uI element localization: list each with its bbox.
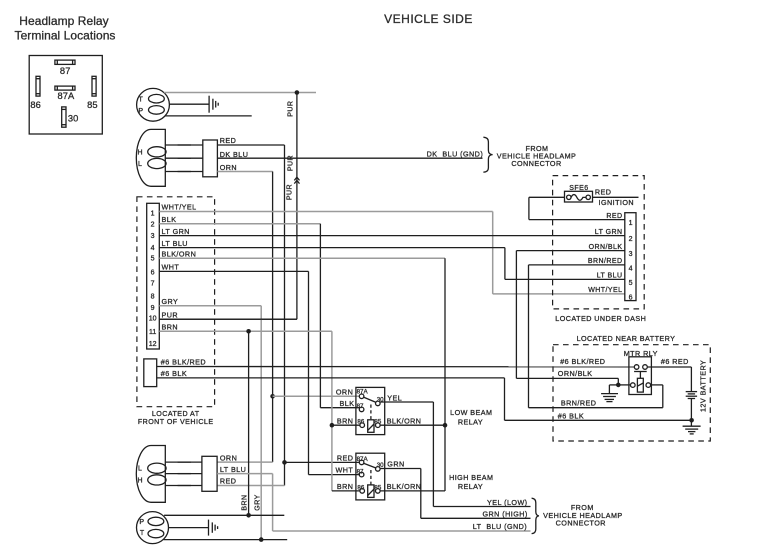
terminal 87A blade	[55, 86, 75, 101]
wire fuse to dash pin1	[529, 197, 625, 219]
svg-text:CONNECTOR: CONNECTOR	[556, 519, 606, 528]
svg-text:LOCATED UNDER DASH: LOCATED UNDER DASH	[555, 314, 646, 323]
svg-text:LT BLU: LT BLU	[162, 239, 188, 248]
low relay pin circles	[359, 394, 380, 428]
svg-text:GRY: GRY	[254, 494, 261, 510]
wire P top lamp stub	[165, 115, 252, 117]
node BRN split junction	[246, 329, 251, 334]
node ORN junction at low 87A	[270, 394, 275, 399]
ground top lamp	[209, 96, 218, 113]
MTR RLY plunger	[634, 372, 647, 379]
wire BLK pin2 horizontal (gray)	[159, 223, 320, 225]
svg-text:87: 87	[60, 66, 71, 76]
svg-text:BRN/RED: BRN/RED	[588, 258, 623, 265]
svg-text:RED: RED	[606, 213, 622, 220]
terminal 86 blade	[30, 76, 41, 110]
wire bottom headlamp pigtail 1	[165, 461, 202, 463]
label BRN vertical	[242, 494, 249, 510]
wire WHT pin6 to high 87	[159, 271, 359, 474]
wire T top lamp (gray)	[164, 92, 316, 94]
svg-text:8: 8	[151, 294, 155, 301]
svg-text:LT BLU: LT BLU	[220, 465, 246, 474]
svg-text:ORN/BLK: ORN/BLK	[558, 369, 593, 378]
wire GRN from high 30	[380, 469, 531, 519]
svg-text:87: 87	[357, 468, 364, 475]
svg-text:BRN: BRN	[337, 416, 354, 425]
wire LT BLU pin4 to dash pin5	[159, 248, 625, 280]
svg-text:PUR: PUR	[287, 184, 294, 200]
svg-text:BLK/ORN: BLK/ORN	[162, 250, 197, 259]
connector top headlamp	[203, 140, 218, 177]
svg-text:LT GRN: LT GRN	[162, 227, 190, 236]
node BRN junction low 86	[330, 423, 335, 428]
brace bottom vehicle connector	[532, 498, 539, 533]
svg-text:BLK/ORN: BLK/ORN	[387, 482, 422, 491]
relay low beam box	[356, 387, 385, 434]
wire DK BLU to vehicle connector	[217, 157, 482, 159]
svg-text:PUR: PUR	[288, 155, 295, 171]
svg-text:LOW BEAM: LOW BEAM	[450, 408, 492, 417]
wire ORN top horizontal (gray)	[217, 171, 272, 173]
wire ORN/BLK dash pin3	[516, 251, 624, 385]
wire #6 BLK/RED to MTR RLY	[157, 366, 635, 368]
wire PUR pin10 stub	[159, 318, 297, 320]
headlamp relay pinout box	[29, 56, 102, 135]
svg-text:LT BLU (GND): LT BLU (GND)	[473, 522, 527, 531]
wire RED vertical	[284, 145, 286, 486]
lamp connector T/P top	[137, 88, 170, 121]
svg-text:11: 11	[149, 329, 156, 336]
node RED/ORN junction at high 87A	[282, 460, 287, 465]
svg-text:2: 2	[151, 221, 155, 228]
label FROM vehicle headlamp connector top	[497, 144, 577, 168]
svg-text:87A: 87A	[357, 456, 369, 463]
low relay dashed link	[370, 405, 372, 420]
svg-text:GRN: GRN	[387, 459, 404, 468]
high relay dashed link	[370, 470, 372, 485]
svg-text:GRY: GRY	[162, 297, 179, 306]
svg-text:3: 3	[629, 251, 633, 258]
svg-text:Headlamp Relay: Headlamp Relay	[19, 14, 108, 28]
wire BRN vertical to relays 86 (gray)	[331, 331, 333, 491]
connector strip front of vehicle	[147, 203, 160, 349]
svg-text:BLK: BLK	[162, 215, 177, 224]
connector strip under dash	[625, 213, 636, 301]
label LOW BEAM RELAY	[450, 408, 492, 426]
label LOCATED AT FRONT OF VEHICLE	[138, 410, 214, 426]
svg-text:WHT: WHT	[336, 465, 354, 474]
wire BRN into high 86	[332, 490, 361, 492]
svg-text:YEL (LOW): YEL (LOW)	[487, 498, 528, 507]
svg-text:P: P	[139, 519, 144, 526]
battery 12V	[686, 392, 697, 399]
svg-text:P: P	[138, 108, 143, 115]
svg-text:WHT: WHT	[162, 263, 180, 272]
wire BLK vertical to low 87	[320, 224, 360, 408]
svg-text:5: 5	[629, 280, 633, 287]
svg-text:3: 3	[151, 233, 155, 240]
svg-text:87: 87	[357, 403, 364, 410]
svg-text:VEHICLE SIDE: VEHICLE SIDE	[384, 12, 473, 26]
svg-text:BLK/ORN: BLK/ORN	[387, 416, 422, 425]
wire PUR vertical	[296, 93, 298, 320]
wire BRN into low 86	[332, 424, 361, 426]
svg-text:6: 6	[151, 269, 155, 276]
svg-text:86: 86	[357, 419, 364, 426]
MTR RLY contact circles	[634, 365, 647, 370]
svg-text:BRN: BRN	[337, 482, 354, 491]
terminal 87 blade	[55, 60, 75, 76]
svg-text:RED: RED	[220, 477, 237, 486]
wire top headlamp pigtail 1	[165, 144, 203, 146]
svg-text:1: 1	[151, 210, 155, 217]
wire #6 BLK to battery ground	[157, 378, 692, 420]
label HIGH BEAM RELAY	[449, 473, 493, 491]
wire BLK/ORN vertical to relays 85	[444, 258, 446, 491]
svg-text:#6 BLK/RED: #6 BLK/RED	[560, 357, 605, 366]
svg-text:4: 4	[151, 245, 155, 252]
wire BLK/ORN from low 85	[380, 424, 445, 426]
dashed box located at front of vehicle	[137, 197, 215, 407]
wire PUR horizontal to pin 10	[159, 318, 297, 320]
svg-text:CONNECTOR: CONNECTOR	[511, 159, 561, 168]
svg-text:DK BLU: DK BLU	[220, 150, 249, 159]
wire LT BLU GND vertical (gray)	[272, 474, 274, 531]
wire RED into high 87A	[285, 461, 360, 463]
svg-text:LT GRN: LT GRN	[595, 229, 623, 236]
svg-text:12: 12	[149, 341, 157, 348]
MTR RLY side circles	[631, 383, 651, 388]
wire BLK/ORN from high 85	[380, 490, 445, 492]
wire T bottom lamp	[164, 539, 288, 541]
wire ORN bottom lamp (gray)	[217, 461, 273, 463]
svg-text:T: T	[139, 96, 144, 103]
svg-text:LT BLU: LT BLU	[597, 273, 623, 280]
svg-text:RED: RED	[595, 187, 612, 196]
wire ORN vertical	[272, 172, 274, 463]
label FROM vehicle headlamp connector bottom	[543, 503, 623, 527]
svg-text:#6 BLK: #6 BLK	[161, 369, 187, 378]
svg-text:L: L	[138, 161, 142, 168]
relay high beam box	[356, 453, 385, 500]
low relay coil	[368, 420, 374, 433]
svg-text:IGNITION: IGNITION	[599, 198, 635, 207]
node BLK/ORN junction low 85	[443, 423, 448, 428]
node battery ground junction	[689, 418, 694, 423]
svg-text:SFE6: SFE6	[569, 185, 588, 192]
svg-text:DK BLU (GND): DK BLU (GND)	[427, 150, 484, 159]
wire ignition stub	[593, 196, 639, 198]
ground battery	[683, 426, 701, 434]
ground MTR RLY	[601, 394, 618, 402]
svg-text:86: 86	[357, 484, 364, 491]
wire bottom headlamp pigtail 2	[165, 473, 202, 475]
wire LT BLU bottom lamp (gray)	[217, 473, 273, 475]
svg-text:12V BATTERY: 12V BATTERY	[698, 360, 707, 412]
svg-text:87A: 87A	[57, 91, 75, 101]
high relay armature	[363, 463, 376, 468]
svg-text:PUR: PUR	[288, 101, 295, 117]
svg-text:ORN: ORN	[220, 453, 237, 462]
svg-text:30: 30	[68, 113, 79, 123]
wire LT BLU GND horizontal (gray)	[273, 530, 531, 532]
wire BRN branch down to P	[248, 331, 250, 515]
wire RED top horizontal	[217, 144, 284, 146]
svg-text:PUR: PUR	[162, 310, 179, 319]
high relay pin circles	[359, 460, 380, 493]
dashed box located near battery	[553, 345, 710, 441]
label 12V BATTERY	[698, 360, 707, 412]
connector #6 leads	[144, 359, 157, 387]
VEHICLE SIDE title	[384, 12, 473, 26]
headlamp relay terminal locations title	[15, 14, 116, 43]
svg-text:FRONT OF VEHICLE: FRONT OF VEHICLE	[138, 418, 214, 426]
svg-text:#6 BLK: #6 BLK	[558, 411, 584, 420]
svg-text:BRN/RED: BRN/RED	[561, 398, 597, 407]
svg-text:HIGH BEAM: HIGH BEAM	[449, 473, 493, 482]
wire ORN/BLK ground stem	[609, 385, 618, 394]
terminal 30 blade	[62, 107, 79, 127]
wire P bottom lamp	[164, 514, 284, 516]
label PUR lower	[287, 184, 294, 200]
svg-text:87A: 87A	[357, 389, 369, 396]
connector bottom headlamp	[202, 456, 217, 491]
wire BRN/RED dash pin4	[529, 265, 663, 408]
svg-text:2: 2	[629, 236, 633, 243]
wire top headlamp pigtail 3	[165, 171, 203, 173]
brace top vehicle connector	[483, 137, 492, 172]
svg-text:H: H	[137, 149, 143, 156]
node PUR junction top	[295, 90, 300, 95]
high relay coil	[368, 485, 374, 498]
node BRN at P wire	[246, 513, 251, 518]
svg-text:5: 5	[151, 256, 155, 263]
svg-text:YEL: YEL	[387, 393, 402, 402]
svg-text:GRN (HIGH): GRN (HIGH)	[483, 510, 528, 519]
relay MTR RLY box	[629, 357, 652, 395]
wire BRN pin11 horizontal (gray)	[159, 330, 332, 332]
wire WHT/YEL pin1 (gray)	[159, 212, 625, 294]
svg-text:ORN/BLK: ORN/BLK	[589, 244, 623, 251]
svg-text:86: 86	[30, 100, 41, 110]
label PUR upper	[288, 101, 295, 117]
svg-text:9: 9	[151, 305, 155, 312]
svg-text:RED: RED	[220, 136, 237, 145]
wire ORN into low 87A (gray)	[273, 395, 360, 397]
svg-text:BRN: BRN	[242, 494, 249, 510]
node GRY at T wire	[259, 537, 264, 542]
svg-text:H: H	[137, 478, 143, 485]
svg-text:ORN: ORN	[336, 388, 353, 397]
wire ORN/BLK into MTR RLY	[618, 384, 630, 386]
lamp connector P/T bottom	[137, 512, 169, 544]
wire #6 RED	[647, 367, 691, 391]
svg-text:4: 4	[629, 265, 633, 272]
svg-text:RELAY: RELAY	[458, 417, 483, 426]
wire BLK/ORN pin5 horizontal (gray)	[159, 257, 445, 259]
wire GRY pin9 (gray)	[159, 306, 261, 540]
svg-text:Terminal Locations: Terminal Locations	[15, 29, 116, 43]
svg-text:10: 10	[149, 316, 157, 323]
svg-text:#6 BLK/RED: #6 BLK/RED	[161, 358, 206, 367]
wire RED bottom lamp (gray)	[217, 485, 284, 487]
wire battery to ground	[690, 399, 692, 427]
svg-text:BLK: BLK	[340, 399, 355, 408]
svg-text:RED: RED	[337, 454, 354, 463]
svg-text:BRN: BRN	[162, 323, 179, 332]
inline connector chevrons on PUR	[294, 177, 299, 183]
svg-text:RELAY: RELAY	[458, 482, 483, 491]
svg-text:6: 6	[629, 294, 633, 301]
svg-text:#6 RED: #6 RED	[661, 357, 689, 366]
low relay armature	[363, 397, 376, 403]
wire LT GRN pin3 to dash pin2	[159, 235, 625, 237]
fuse SFE6	[565, 191, 593, 202]
wire bottom headlamp pigtail 3	[165, 485, 202, 487]
svg-text:WHT/YEL: WHT/YEL	[588, 287, 622, 294]
svg-text:WHT/YEL: WHT/YEL	[162, 203, 197, 212]
svg-text:L: L	[138, 466, 142, 473]
wire top lamp ground lead	[169, 103, 209, 105]
wire bottom lamp ground lead	[168, 527, 208, 529]
svg-text:85: 85	[87, 100, 98, 110]
label PUR middle	[288, 155, 295, 171]
svg-text:T: T	[140, 530, 145, 537]
ground bottom lamp	[209, 520, 218, 536]
node ORN/BLK ground junction	[616, 383, 621, 388]
label GRY vertical	[254, 494, 261, 510]
headlamp L/H bottom	[136, 446, 166, 503]
dashed box located under dash	[553, 176, 645, 309]
wire YEL from low 30	[380, 402, 531, 507]
svg-text:1: 1	[629, 220, 633, 227]
svg-text:7: 7	[151, 281, 155, 288]
headlamp H/L top	[136, 129, 166, 186]
svg-text:LOCATED AT: LOCATED AT	[152, 410, 200, 418]
svg-text:LOCATED NEAR BATTERY: LOCATED NEAR BATTERY	[577, 334, 676, 343]
terminal 85 blade	[87, 76, 98, 110]
MTR RLY coil	[637, 378, 643, 392]
wire top headlamp pigtail 2	[165, 157, 203, 159]
